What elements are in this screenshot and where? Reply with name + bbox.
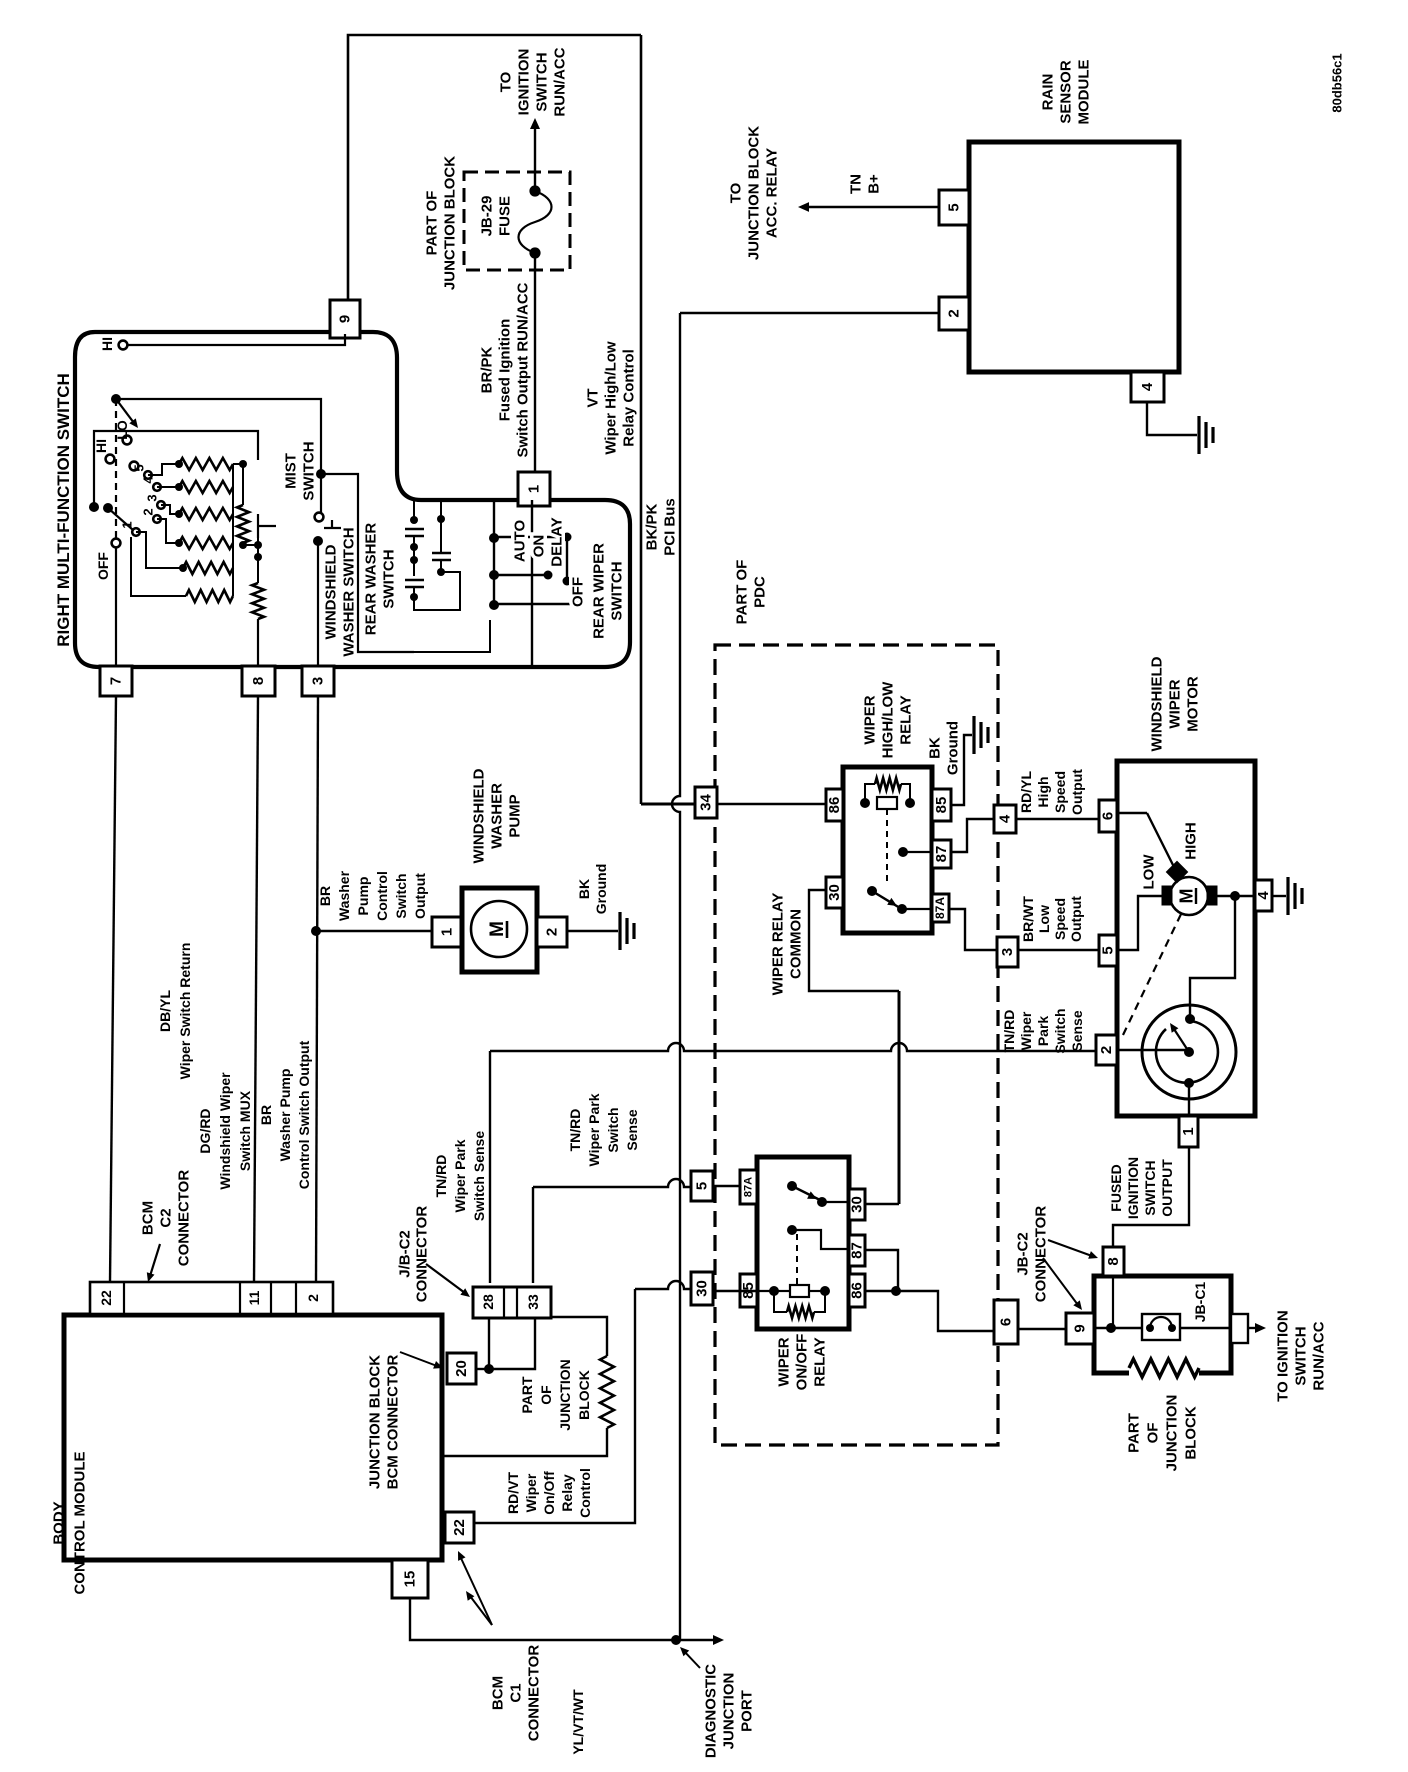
part of junction block JB-C1 [1094,1276,1231,1373]
resistor R8 vertical [252,583,264,619]
PDC pin 34 [695,787,717,818]
svg-text:TO: TO [497,71,514,92]
relay pin 30 [826,877,843,908]
wire to washer pump [316,930,432,932]
svg-text:IGNITION: IGNITION [1125,1157,1141,1219]
svg-text:WIPER: WIPER [861,695,878,744]
pump pin 1 [432,917,462,947]
svg-text:IGNITION: IGNITION [515,49,532,116]
svg-text:HI: HI [93,439,109,453]
svg-text:JUNCTION: JUNCTION [557,1359,573,1431]
svg-text:Low: Low [1036,905,1052,933]
svg-text:RAIN: RAIN [1039,74,1056,111]
svg-text:M: M [487,921,508,937]
part of PDC dashed box [715,645,998,1445]
svg-text:PART OF: PART OF [733,560,750,625]
wiper high/low relay [843,767,932,933]
svg-text:Control: Control [577,1468,593,1518]
svg-text:WIPER: WIPER [775,1337,792,1386]
onoff coil rect [790,1285,809,1297]
svg-text:2: 2 [543,928,560,936]
svg-text:Switch: Switch [1052,1008,1068,1053]
BCM C1 pin 22 [445,1512,474,1543]
svg-text:M: M [1176,889,1196,904]
svg-text:30: 30 [693,1280,710,1297]
svg-text:15: 15 [401,1571,418,1588]
svg-text:JB-C2: JB-C2 [1014,1232,1031,1275]
onoff pin 85 [740,1274,757,1307]
arrowhead left acc relay [798,202,809,212]
svg-text:TN/RD: TN/RD [1001,1010,1017,1053]
svg-text:SWITCH: SWITCH [533,52,550,111]
ground pump [618,912,621,950]
motor wires [1117,812,1147,814]
svg-text:86: 86 [848,1282,865,1299]
svg-text:PCI Bus: PCI Bus [661,498,678,556]
svg-text:REAR WIPER: REAR WIPER [590,543,607,639]
wire PCI bus vertical to diagnostic junction [672,313,680,1640]
svg-text:RELAY: RELAY [897,695,914,744]
svg-text:DIAGNOSTIC: DIAGNOSTIC [702,1664,719,1758]
relay resistor [875,778,901,790]
svg-text:WINDSHIELD: WINDSHIELD [470,768,487,863]
svg-text:Output: Output [412,873,428,919]
fuse JB-29 symbol [529,185,540,196]
MFS pin 9 [330,300,360,338]
JB internal fuse [1094,1327,1142,1329]
svg-text:Wiper Park: Wiper Park [586,1093,602,1166]
pump pin 2 [537,917,567,947]
mist switch [316,469,326,479]
svg-text:Speed: Speed [1052,898,1068,940]
resistor R6 [186,590,233,602]
svg-text:RUN/ACC: RUN/ACC [551,47,568,116]
svg-text:30: 30 [826,884,843,901]
svg-text:BCM: BCM [489,1676,506,1710]
body control module box [64,1315,442,1560]
svg-text:DB/YL: DB/YL [157,990,173,1032]
PDC pin 30 border [691,1272,713,1305]
wire TN/RD park sense 2 : pin 33 to PDC pin 5 [532,1187,534,1283]
wire RD/VT [474,1289,635,1523]
svg-text:9: 9 [336,315,353,323]
svg-text:SWITCH: SWITCH [608,561,625,620]
JB fuse box [1142,1314,1180,1340]
MFS internal wire to mist junction [116,399,321,474]
svg-text:Pump: Pump [355,877,371,916]
wire pin 8 to motor pin 1 [1112,1276,1114,1328]
svg-text:22: 22 [451,1519,468,1536]
resistor R1 [179,458,233,470]
svg-text:JUNCTION BLOCK: JUNCTION BLOCK [441,156,458,290]
svg-text:BCM: BCM [139,1201,156,1235]
svg-text:2: 2 [945,309,962,317]
resistor R4 [179,537,233,549]
svg-text:CONNECTOR: CONNECTOR [525,1645,542,1742]
svg-text:B+: B+ [865,174,882,194]
wire mist to rear washer switch [321,474,414,652]
svg-text:Wiper: Wiper [523,1473,539,1512]
svg-text:5: 5 [693,1182,710,1190]
svg-text:30: 30 [848,1196,865,1213]
PDC pin 4 [994,805,1016,833]
svg-text:Switch Output RUN/ACC: Switch Output RUN/ACC [514,282,531,457]
svg-text:OF: OF [538,1385,554,1405]
svg-text:WASHER SWITCH: WASHER SWITCH [340,527,357,656]
svg-text:ON: ON [530,535,547,558]
svg-text:WIPER RELAY: WIPER RELAY [769,893,786,996]
BCM C1 pin 15 [392,1560,428,1598]
relay pin 87 [932,840,951,868]
svg-text:OUTPUT: OUTPUT [1159,1159,1175,1217]
svg-text:Wiper: Wiper [1018,1011,1034,1050]
wire VT to pin 34 and relay 86 [641,803,695,806]
MFS pin 1 [518,472,550,506]
svg-text:BK/PK: BK/PK [643,503,660,550]
svg-text:JB-29: JB-29 [478,196,495,237]
svg-text:SENSOR: SENSOR [1057,60,1074,124]
svg-text:1: 1 [525,485,542,493]
park linkage dashed [1123,910,1183,1035]
wire DG/RD [254,696,258,1282]
relay pin 86 [826,789,843,821]
arrowhead up to ignition [530,118,540,129]
wiper on/off relay box [757,1157,849,1329]
svg-text:DG/RD: DG/RD [197,1108,213,1153]
svg-text:87: 87 [848,1242,865,1259]
MFS inner wire loop [94,431,258,507]
svg-text:PORT: PORT [738,1690,755,1732]
svg-text:BK: BK [926,737,943,759]
relay coil + resistor [860,798,870,808]
svg-text:BR/PK: BR/PK [478,346,495,393]
resistor R5 [183,562,233,574]
onoff pin 30 [849,1189,865,1220]
windshield washer pump box [462,888,537,972]
svg-text:JUNCTION BLOCK: JUNCTION BLOCK [745,126,762,260]
wire+arrow to ignition switch [534,126,536,191]
svg-text:Switch MUX: Switch MUX [237,1090,253,1171]
svg-text:RUN/ACC: RUN/ACC [1310,1321,1327,1390]
svg-text:87: 87 [933,846,950,863]
svg-text:8: 8 [250,677,267,685]
onoff resistor [787,1306,814,1318]
wire relay 87A to pin 3 [949,909,997,950]
svg-text:ACC. RELAY: ACC. RELAY [763,148,780,238]
park switch outer circle [1142,1005,1236,1099]
PDC pin 6 [994,1300,1018,1344]
wire onoff 86 out to pin 6 [865,1291,994,1331]
svg-text:86: 86 [826,797,843,814]
rear wiper wire [531,500,533,667]
svg-text:1: 1 [438,928,455,936]
svg-text:34: 34 [697,794,714,811]
pin 20 [447,1353,476,1384]
svg-text:Ground: Ground [593,864,609,915]
svg-text:Speed: Speed [1052,771,1068,813]
relay contact arm [872,891,900,908]
svg-text:REAR WASHER: REAR WASHER [362,523,379,636]
wire RD/YL high speed [1016,818,1099,820]
junction block resistor [600,1356,614,1428]
svg-text:HI: HI [99,337,115,351]
wire onoff 87 to 86 junction [865,1250,898,1291]
motor pin 4 [1255,880,1272,911]
MFS pin 3 [302,666,334,696]
wire: BR/PK fused ignition to MFS pin 1 [534,253,536,474]
MFS pin 7 [100,666,132,696]
svg-text:JUNCTION BLOCK: JUNCTION BLOCK [366,1355,383,1489]
svg-text:RIGHT MULTI-FUNCTION SWITCH: RIGHT MULTI-FUNCTION SWITCH [54,373,73,647]
svg-text:SWITCH: SWITCH [1292,1326,1309,1385]
svg-text:Washer: Washer [336,870,352,921]
wire pump ground [567,930,618,932]
ground motor [1286,877,1289,915]
svg-text:Output: Output [1068,896,1084,942]
svg-text:OF: OF [1144,1423,1161,1444]
motor pin 6 [1099,800,1117,832]
motor brushes [1162,886,1172,905]
svg-text:22: 22 [98,1290,114,1306]
svg-text:JB-C1: JB-C1 [1192,1282,1208,1323]
wire pin6 to pin9 [1018,1328,1066,1330]
relay pin 85 [932,789,951,821]
relay pin 87A [932,894,949,922]
svg-text:PART: PART [1125,1413,1142,1453]
svg-text:Control: Control [374,871,390,921]
svg-text:J/B-C2: J/B-C2 [396,1230,413,1278]
svg-text:CONNECTOR: CONNECTOR [175,1170,192,1267]
resistor R3 [179,508,233,520]
svg-text:3: 3 [999,948,1016,956]
svg-text:85: 85 [933,797,950,814]
svg-text:SWITCH: SWITCH [380,549,397,608]
svg-text:ON/OFF: ON/OFF [793,1334,810,1391]
svg-text:HIGH: HIGH [1182,822,1199,860]
onoff linkage dashed [796,1234,798,1284]
rain sensor pin 2 [939,297,969,330]
J/B-C2 connector strip [473,1287,551,1318]
wiper relay common [809,890,899,991]
svg-text:Output: Output [1069,769,1085,815]
wire OFF to pin 7 [115,547,117,666]
wire pin5 to 87A [713,1185,740,1187]
rotary arrow [129,418,138,428]
svg-text:4: 4 [996,814,1013,823]
svg-text:20: 20 [453,1360,470,1377]
svg-text:FUSE: FUSE [496,196,513,236]
PDC pin 5 [691,1171,713,1201]
svg-text:Relay: Relay [559,1474,575,1512]
onoff relay contact [787,1181,797,1191]
svg-text:Ground: Ground [944,721,961,775]
wire pdc30 to 85 [713,1290,757,1292]
wire relay 87 to pin 4 [951,819,994,852]
arrow to ignition switch [1255,1323,1266,1333]
svg-text:80db56c1: 80db56c1 [1330,53,1345,112]
svg-text:1: 1 [1180,1127,1197,1135]
svg-text:AUTO: AUTO [511,520,528,563]
rain sensor pin 4 [1131,372,1164,402]
svg-text:Washer Pump: Washer Pump [277,1069,293,1162]
svg-text:Sense: Sense [624,1109,640,1150]
svg-text:BLOCK: BLOCK [576,1370,592,1420]
MFS rotary switch dashed line [111,394,121,404]
svg-text:Wiper Switch Return: Wiper Switch Return [177,943,193,1080]
MFS pin 8 [242,666,275,696]
BCM C2 connector strip [90,1282,333,1314]
svg-text:2: 2 [141,508,156,515]
rain sensor pin 5 [939,190,969,225]
svg-text:CONNECTOR: CONNECTOR [1032,1206,1049,1303]
svg-text:33: 33 [525,1294,541,1310]
svg-text:BR: BR [258,1105,274,1125]
wire: VT Wiper High/Low Relay Control vertical [640,35,643,804]
resistor right bus [232,464,234,596]
svg-text:PART: PART [519,1376,535,1414]
ground rain sensor [1197,416,1200,454]
svg-text:2: 2 [305,1294,321,1302]
relay linkage dashed [886,809,888,884]
svg-text:PDC: PDC [751,576,768,608]
svg-text:2: 2 [1098,1046,1115,1054]
svg-text:TN: TN [847,174,864,194]
svg-text:Park: Park [1035,1016,1051,1047]
wire: TN B+ to junction block acc relay [806,206,939,208]
svg-text:5: 5 [945,203,962,211]
svg-text:WINDSHIELD: WINDSHIELD [1148,656,1165,751]
svg-text:TO IGNITION: TO IGNITION [1274,1310,1291,1401]
onoff pin 87A [740,1170,757,1204]
wire: BK/PK PCI bus from rain sensor pin 2 [680,312,939,314]
svg-text:LOW: LOW [1140,854,1157,890]
onoff pin 86 [849,1274,865,1307]
wire YL/VT/WT [410,1598,716,1640]
svg-text:Switch: Switch [393,873,409,918]
svg-text:HIGH/LOW: HIGH/LOW [879,681,896,758]
svg-text:3: 3 [145,494,160,501]
JB pin 9 [1066,1313,1094,1344]
svg-text:7: 7 [107,677,124,685]
svg-text:5: 5 [1099,946,1116,954]
arrow to C2 strip [147,1272,155,1282]
svg-text:C1: C1 [507,1683,524,1702]
svg-text:SWITCH: SWITCH [300,441,317,500]
svg-text:BCM CONNECTOR: BCM CONNECTOR [384,1354,401,1489]
svg-text:TN/RD: TN/RD [567,1109,583,1152]
relay coil [877,797,897,809]
svg-text:Wiper Park: Wiper Park [452,1139,468,1212]
svg-text:DELAY: DELAY [548,517,565,566]
wire DB/YL [110,696,116,1282]
svg-text:5: 5 [132,464,147,471]
motor pin 5 [1099,935,1117,966]
svg-text:Sense: Sense [1069,1010,1085,1051]
svg-text:High: High [1035,776,1051,807]
svg-text:OFF: OFF [95,552,111,580]
svg-text:9: 9 [1071,1324,1088,1332]
wire TN/RD park sense 1 : pin 28 to motor pin 2 [489,1051,491,1283]
motor M circle [1170,877,1208,915]
svg-text:4: 4 [1139,382,1156,391]
right multi-function switch outline [75,332,630,667]
wire BR washer [316,696,318,1282]
svg-text:6: 6 [1099,812,1116,820]
svg-text:COMMON: COMMON [787,909,804,979]
rain sensor module box [969,142,1179,372]
svg-text:MODULE: MODULE [1075,60,1092,125]
svg-text:BODY: BODY [50,1501,67,1544]
svg-text:SWITCH: SWITCH [1142,1160,1158,1215]
svg-text:Switch: Switch [605,1107,621,1152]
svg-text:BLOCK: BLOCK [1182,1406,1199,1459]
windshield wiper motor box [1117,761,1255,1116]
wire to pin 8 [257,619,259,666]
svg-text:CONTROL MODULE: CONTROL MODULE [71,1451,88,1594]
svg-text:VT: VT [584,388,601,407]
motor ground [1272,895,1286,897]
svg-text:RD/VT: RD/VT [505,1472,521,1514]
JB resistor [1129,1359,1199,1377]
svg-text:PART OF: PART OF [423,191,440,256]
svg-text:TO: TO [727,182,744,203]
svg-text:PUMP: PUMP [506,794,523,837]
resistor R2 [179,481,233,493]
wire: rain sensor ground [1147,402,1197,435]
wire relay 85 to ground [951,735,972,805]
junction block loop w resistor [551,1317,607,1356]
svg-text:Control Switch Output: Control Switch Output [296,1040,312,1189]
junction block dashed box [464,172,570,270]
motor pin 2 [1096,1035,1117,1065]
svg-text:JUNCTION: JUNCTION [1163,1395,1180,1472]
svg-text:Wiper High/Low: Wiper High/Low [602,341,619,455]
wire washer switch to pin 3 [317,541,319,666]
svg-text:87A: 87A [742,1177,754,1197]
svg-text:BR/WT: BR/WT [1020,896,1036,942]
svg-text:28: 28 [480,1294,496,1310]
svg-text:JUNCTION: JUNCTION [720,1673,737,1750]
ground BK relay [972,716,975,754]
JB pin 8 [1103,1247,1124,1276]
svg-text:TN/RD: TN/RD [433,1155,449,1198]
svg-text:CONNECTOR: CONNECTOR [413,1206,430,1303]
svg-text:6: 6 [997,1318,1014,1326]
svg-text:Switch Sense: Switch Sense [471,1131,487,1221]
onoff pin 87 [849,1235,865,1266]
svg-text:WINDSHIELD: WINDSHIELD [322,544,339,639]
svg-text:BK: BK [576,879,592,899]
motor pin 1 [1179,1116,1198,1147]
svg-text:BR: BR [317,886,333,906]
svg-text:MOTOR: MOTOR [1184,676,1201,732]
PDC pin 3 [997,937,1018,967]
svg-text:Relay Control: Relay Control [620,349,637,447]
contact T symbol [257,514,259,538]
svg-text:11: 11 [246,1290,262,1305]
svg-text:1: 1 [120,521,135,528]
svg-text:FUSED: FUSED [1108,1164,1124,1211]
svg-text:RELAY: RELAY [811,1337,828,1386]
wire: VT top loop from MFS pin 9 [348,35,641,300]
svg-text:YL/VT/WT: YL/VT/WT [570,1689,586,1755]
wire pin2 to park center [1117,1049,1189,1051]
svg-text:WASHER: WASHER [488,783,505,849]
svg-text:On/Off: On/Off [541,1471,557,1515]
svg-text:Windshield Wiper: Windshield Wiper [217,1072,233,1190]
svg-text:4: 4 [1255,891,1272,900]
svg-text:3: 3 [309,677,326,685]
